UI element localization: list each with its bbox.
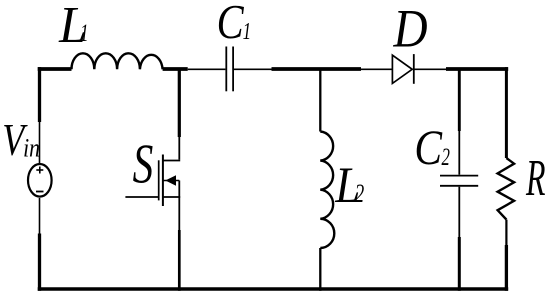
svg-text:D: D bbox=[393, 0, 428, 59]
svg-text:R: R bbox=[525, 149, 545, 207]
svg-text:C: C bbox=[217, 0, 245, 49]
svg-text:2: 2 bbox=[442, 143, 451, 171]
svg-text:in: in bbox=[23, 135, 40, 163]
svg-text:C: C bbox=[414, 119, 443, 175]
svg-text:S: S bbox=[133, 132, 154, 195]
svg-text:1: 1 bbox=[243, 17, 251, 45]
svg-text:2: 2 bbox=[355, 179, 364, 208]
svg-text:1: 1 bbox=[80, 19, 88, 47]
